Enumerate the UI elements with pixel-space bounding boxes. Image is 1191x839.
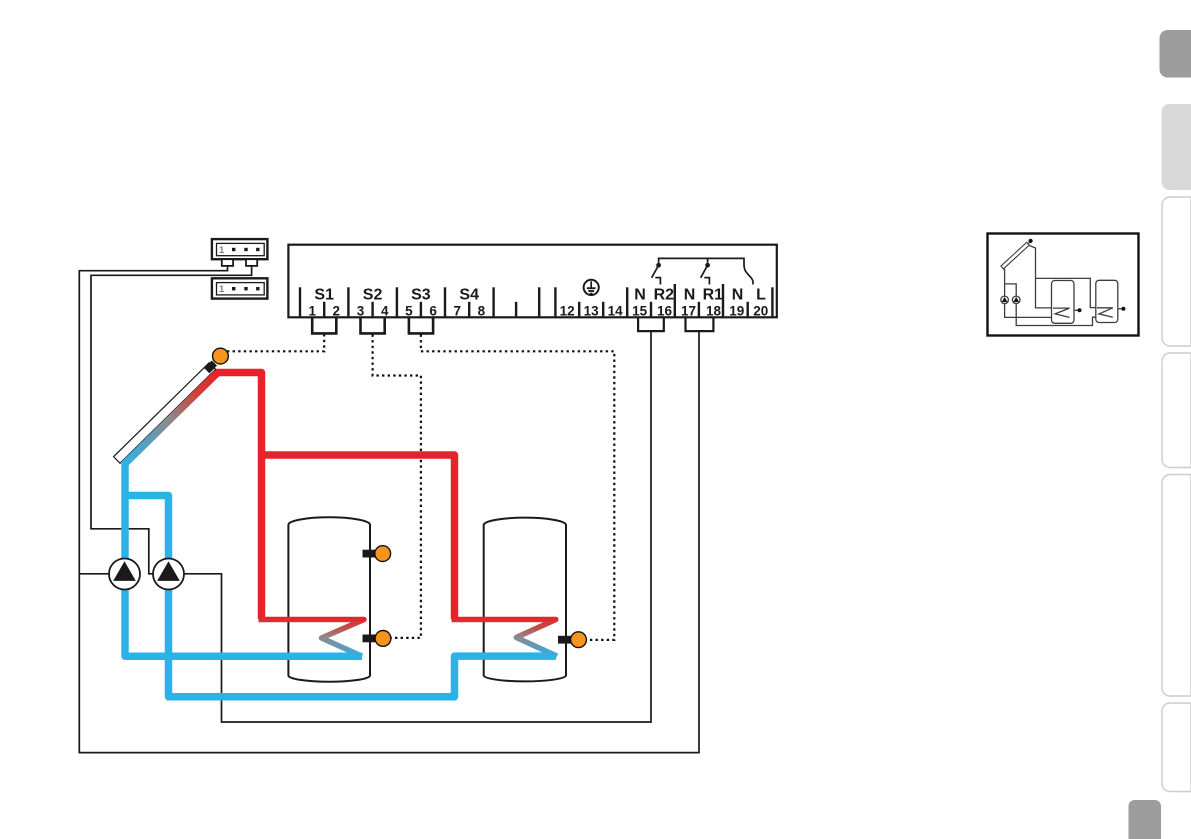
- svg-text:1: 1: [308, 303, 316, 318]
- wire to pump R1: [79, 573, 124, 575]
- svg-text:12: 12: [560, 303, 575, 318]
- svg-text:L: L: [756, 287, 766, 304]
- mini coil 2: [1097, 308, 1113, 317]
- svg-text:5: 5: [405, 303, 413, 318]
- bracket under S1: [312, 318, 336, 334]
- pipe red branch to tank2: [262, 455, 455, 619]
- sensor line S3 to tank2 sensor: [421, 335, 614, 640]
- connector J1 outer: [212, 239, 268, 259]
- svg-text:2: 2: [333, 303, 341, 318]
- tab outline 1: [1162, 197, 1191, 346]
- mini tank 2: [1096, 280, 1118, 322]
- svg-text:N: N: [684, 287, 696, 304]
- mini pump 2: [1012, 296, 1020, 304]
- SECTION: collector: [114, 360, 220, 467]
- mini sensor tank2: [1118, 308, 1122, 310]
- terminal number divider ticks: [324, 302, 748, 317]
- mini collector sensor: [1028, 242, 1030, 244]
- tank 2: [484, 518, 566, 682]
- tab dark top: [1160, 30, 1191, 78]
- tank 1: [288, 517, 370, 681]
- sensor line collector to S1: [227, 335, 324, 352]
- svg-text:R1: R1: [703, 287, 724, 304]
- mini pipe collector-to-tank1: [1029, 245, 1070, 308]
- SECTION: dotted sensor lines: [227, 335, 614, 640]
- mini pipe branch to tank2: [1036, 278, 1113, 307]
- svg-text:S3: S3: [411, 287, 431, 304]
- svg-text:13: 13: [584, 303, 600, 318]
- collector panel frame: [114, 363, 216, 463]
- svg-text:1: 1: [219, 245, 225, 256]
- svg-text:3: 3: [357, 303, 365, 318]
- terminal group labels: [314, 287, 766, 304]
- svg-text:6: 6: [429, 303, 437, 318]
- SECTION: sensors: [213, 348, 587, 647]
- bracket under S3: [409, 318, 433, 334]
- connector J1 pin squares: [232, 248, 260, 251]
- relay R1 pivot: [705, 263, 710, 268]
- bracket under terminals 15 16: [638, 318, 664, 331]
- svg-text:N: N: [732, 287, 744, 304]
- svg-text:19: 19: [729, 303, 744, 318]
- pipe blue branch via pump2 to tank2: [125, 496, 556, 697]
- connector J2 pin squares: [232, 287, 260, 290]
- controller terminal box: [288, 245, 776, 318]
- relay R1 lever: [701, 265, 708, 278]
- svg-text:15: 15: [632, 303, 648, 318]
- svg-text:1: 1: [219, 284, 225, 295]
- sensor collector: [213, 348, 229, 364]
- pipe red collector flow to tank1: [211, 373, 262, 620]
- svg-text:18: 18: [706, 303, 722, 318]
- coil tank2: [452, 620, 558, 657]
- mini pump 1: [1001, 296, 1009, 304]
- sensor tank1 upper: [375, 546, 391, 562]
- SECTION: black wires and connectors: [79, 239, 713, 753]
- pump R2 rotor: [157, 561, 180, 581]
- mini tank 1: [1052, 281, 1075, 324]
- connector J2 outer: [212, 278, 268, 298]
- svg-text:16: 16: [657, 303, 673, 318]
- SECTION: pumps: [109, 559, 184, 590]
- tab outline 3: [1162, 475, 1191, 697]
- collector panel absorber gradient: [121, 370, 220, 468]
- mini coil 1: [1053, 308, 1070, 317]
- connector J1 inner: [217, 243, 265, 255]
- sensor tank1 lower: [375, 631, 391, 647]
- pump R1 circle: [109, 559, 140, 590]
- sensor tank2 lower: [571, 632, 587, 648]
- tab light filled: [1162, 104, 1191, 190]
- tab outline 2: [1162, 353, 1191, 468]
- SECTION: tanks: [288, 517, 566, 681]
- svg-text:N: N: [634, 287, 646, 304]
- SECTION: terminal box: [288, 245, 776, 319]
- svg-text:7: 7: [453, 303, 461, 318]
- bracket under S2: [361, 318, 385, 334]
- svg-text:17: 17: [681, 303, 696, 318]
- svg-text:R2: R2: [654, 287, 675, 304]
- wire connector1 pin to terminals 17/18 via left and bottom: [79, 266, 699, 753]
- svg-text:S4: S4: [459, 287, 479, 304]
- mini pipe collector return via pump1: [1003, 268, 1070, 318]
- terminal numbers: [308, 303, 768, 318]
- inset frame: [988, 234, 1139, 336]
- terminal group separator ticks: [300, 284, 772, 317]
- connector J1 tab left: [222, 259, 233, 266]
- mini collector panel: [1001, 242, 1029, 268]
- pump R1 rotor: [113, 561, 136, 581]
- SECTION: right page tabs: [1129, 30, 1191, 839]
- collector sensor pocket: [204, 360, 217, 373]
- relay R2 contact: [655, 278, 660, 285]
- connector J2 inner: [217, 283, 265, 295]
- relay R2 pivot: [656, 263, 661, 268]
- pump R2 circle: [153, 559, 184, 590]
- svg-text:20: 20: [753, 303, 768, 318]
- mini pipe branch via pump2: [1005, 284, 1113, 326]
- relay bus bar: [659, 258, 753, 284]
- SECTION: mini overview inset: [988, 234, 1139, 336]
- pipe blue collector return: [125, 458, 362, 656]
- sensor tank2 lower stub: [558, 636, 572, 644]
- sensor tank1 lower stub: [363, 635, 377, 643]
- wire connector1 pin2 to pump R2: [91, 266, 252, 574]
- coil tank1: [259, 620, 365, 657]
- relay R2 lever: [652, 265, 659, 278]
- bottom corner gray square: [1129, 800, 1162, 839]
- bracket under terminals 17 18: [686, 318, 714, 331]
- svg-text:S1: S1: [314, 287, 334, 304]
- connector J1 tab right: [246, 259, 257, 266]
- relay R1 pivot stem: [707, 258, 709, 262]
- sensor tank1 upper stub: [363, 550, 377, 558]
- wire pump R2 to terminals 15/16: [169, 331, 652, 722]
- svg-text:4: 4: [381, 303, 389, 318]
- svg-text:14: 14: [608, 303, 624, 318]
- SECTION: pipes: [125, 373, 557, 697]
- sensor line S2 to tank1 sensor: [373, 335, 421, 638]
- relay R1 contact: [704, 278, 709, 285]
- tab outline 4: [1162, 703, 1191, 792]
- svg-text:8: 8: [478, 303, 486, 318]
- mini sensor tank1: [1074, 309, 1078, 311]
- svg-text:S2: S2: [363, 287, 383, 304]
- earth symbol: [584, 280, 599, 295]
